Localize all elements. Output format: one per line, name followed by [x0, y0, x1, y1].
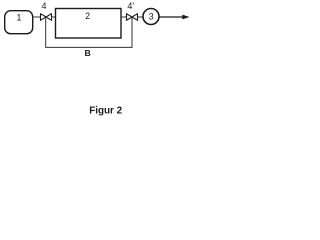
wire bypass right vertical [131, 17, 133, 48]
arrowhead [182, 15, 189, 20]
block 2 [56, 9, 122, 39]
svg-text:Figur 2: Figur 2 [89, 105, 122, 116]
valve 4 [41, 14, 52, 21]
svg-text:2: 2 [85, 11, 90, 21]
wire valve4p-circle3 [138, 16, 144, 18]
wire block2-valve4p [121, 16, 127, 18]
block 1 [5, 11, 33, 34]
wire box1-valve4 [33, 16, 41, 18]
circle 3 [143, 9, 159, 25]
wire bypass left vertical [45, 17, 47, 47]
valve 4' [127, 14, 138, 21]
svg-text:4': 4' [127, 1, 134, 11]
wire valve4-block2 [52, 16, 56, 18]
svg-text:1: 1 [17, 12, 22, 22]
wire bypass bottom horizontal [45, 46, 132, 48]
svg-text:B: B [84, 48, 90, 58]
wire output arrow [159, 16, 184, 18]
svg-text:4: 4 [41, 1, 46, 11]
svg-text:3: 3 [149, 11, 154, 21]
